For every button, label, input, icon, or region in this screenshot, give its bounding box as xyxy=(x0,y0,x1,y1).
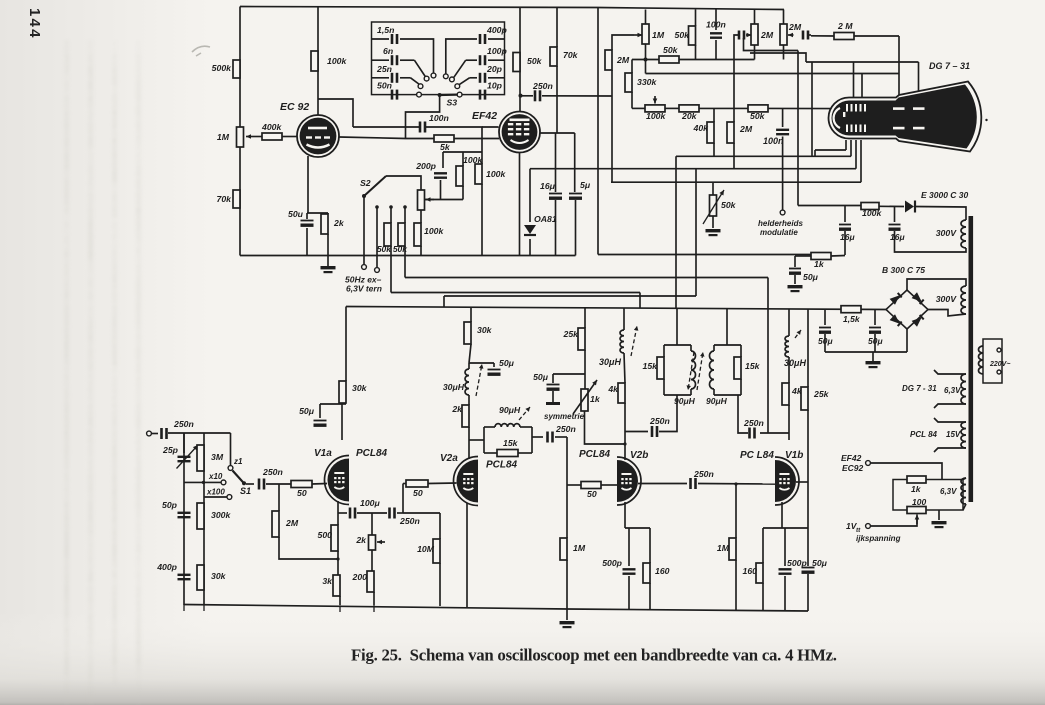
svg-text:400k: 400k xyxy=(261,122,282,132)
resistor 20k xyxy=(679,105,699,112)
svg-text:100k: 100k xyxy=(862,208,882,218)
junction V1b grid node xyxy=(734,482,737,485)
wire anode rail H9 xyxy=(346,307,886,310)
svg-text:5k: 5k xyxy=(440,142,451,152)
wire 250n to grid node xyxy=(397,512,403,514)
wire cathode tap xyxy=(338,512,347,514)
resistor 200 xyxy=(367,571,374,592)
wire box to cap xyxy=(532,436,543,438)
wire S3 diag r3 xyxy=(459,78,470,85)
CRT DG7-31 xyxy=(829,82,988,152)
ground main ground xyxy=(560,621,575,624)
wire 16u b bottom xyxy=(895,231,967,252)
wire anode node xyxy=(342,403,346,405)
resistor 50k row2 xyxy=(748,105,768,112)
resistor 500 xyxy=(331,525,338,551)
wire coil c top xyxy=(788,309,790,336)
wire 100n mid bottom xyxy=(782,137,784,211)
wire V x768 xyxy=(767,278,769,434)
capacitor 5u xyxy=(569,193,582,195)
wire interstage row xyxy=(638,483,687,485)
capacitor 16u a xyxy=(839,224,851,226)
svg-text:30μH: 30μH xyxy=(443,382,465,392)
svg-text:90μH: 90μH xyxy=(499,405,521,415)
svg-text:30k: 30k xyxy=(352,383,368,393)
wire grid wire V2a xyxy=(403,483,406,485)
arrow 1M X wiper xyxy=(634,34,643,36)
svg-text:30μH: 30μH xyxy=(784,358,806,368)
wire 100n top lead xyxy=(715,10,717,31)
wire 50u d lead xyxy=(807,528,809,566)
svg-text:vuemmnnew: vuemmnnew xyxy=(85,656,96,705)
wire V x611 xyxy=(611,181,612,183)
wire cap row right 400p xyxy=(488,38,505,40)
wire cap row left 25n xyxy=(372,77,390,79)
svg-text:50μ: 50μ xyxy=(299,406,315,416)
inductor 30uH a xyxy=(465,369,469,395)
wire S2 t1 xyxy=(363,196,365,264)
resistor 2M grid leak xyxy=(272,511,279,537)
capacitor 20p xyxy=(479,73,482,83)
wire 1M bottom xyxy=(645,44,647,60)
wire top supply rail xyxy=(240,7,784,10)
wire x10 wire xyxy=(184,481,221,483)
wire neck feed 1 xyxy=(845,140,847,150)
wire gnd stub bridge xyxy=(872,352,874,361)
wire V x815 xyxy=(814,150,816,156)
wire 2M mid top xyxy=(733,121,735,123)
svg-text:EF42: EF42 xyxy=(472,110,497,122)
wire 250n tap V2b xyxy=(625,431,648,433)
wire 70k top xyxy=(556,7,558,47)
wire pot row a xyxy=(665,107,679,109)
svg-text:2M: 2M xyxy=(788,22,802,32)
wire 50u a bottom xyxy=(794,275,796,284)
svg-text:50n: 50n xyxy=(377,81,392,91)
wire 160 c bottom xyxy=(762,583,764,611)
svg-text:250n: 250n xyxy=(173,419,194,429)
diode E3000C30 xyxy=(905,201,914,213)
svg-text:2k: 2k xyxy=(355,535,367,545)
wire box2 feed xyxy=(676,309,678,345)
inductor 30uH c xyxy=(785,336,789,357)
wire pot row c xyxy=(768,107,832,109)
svg-text:100μ: 100μ xyxy=(360,498,380,508)
capacitor 16u EF42 xyxy=(549,193,562,195)
inductor 300V b xyxy=(961,286,966,314)
wire 40k bottom xyxy=(713,143,715,156)
wire V x812 xyxy=(811,62,813,156)
svg-text:15k: 15k xyxy=(643,361,659,371)
resistor 30k V2a xyxy=(464,322,471,344)
svg-text:PCL84: PCL84 xyxy=(486,460,518,471)
wire bus H6 xyxy=(405,277,768,279)
potentiometer 50k intensity xyxy=(710,195,717,216)
svg-text:EC92: EC92 xyxy=(842,463,864,473)
svg-text:2M: 2M xyxy=(285,518,299,528)
wire V1b output xyxy=(796,481,808,483)
junction junction 50k row xyxy=(644,58,648,62)
ground 50u ground xyxy=(788,285,803,288)
wire grid to 50 xyxy=(567,484,581,486)
resistor 2M horiz xyxy=(834,33,854,40)
wire 1M bottom xyxy=(566,560,568,609)
resistor 1.5k xyxy=(841,306,861,313)
svg-text:25p: 25p xyxy=(162,445,179,455)
wire bridge bottom row xyxy=(825,351,907,353)
terminal terminal extern xyxy=(375,268,380,273)
wire 330k top xyxy=(631,60,633,74)
wire S1 to cap xyxy=(246,483,254,485)
wire bus H5 1k row xyxy=(598,254,811,256)
wire box bot b xyxy=(518,452,532,454)
wire 250n c right xyxy=(698,483,775,486)
wire 160 b bottom xyxy=(649,583,651,610)
wire cathode split xyxy=(307,212,328,214)
potentiometer 100k focus xyxy=(645,105,665,112)
wire pot1 bottom xyxy=(754,45,756,60)
capacitor 50u PSU xyxy=(789,268,801,270)
capacitor 250n V2b grid xyxy=(546,432,549,443)
terminal S3 contact b xyxy=(424,76,429,81)
ground 50u sym xyxy=(546,402,560,405)
svg-text:500k: 500k xyxy=(212,63,232,73)
wire V x598 xyxy=(597,8,599,255)
wire OA81 bottom xyxy=(529,239,531,256)
svg-text:2k: 2k xyxy=(333,218,345,228)
wire box3 feed xyxy=(726,309,728,345)
svg-text:3M: 3M xyxy=(211,452,224,462)
svg-text:30k: 30k xyxy=(477,325,493,335)
wire box3 top xyxy=(714,344,741,346)
wire 2M leak bottom xyxy=(279,537,338,559)
transformer core xyxy=(969,216,974,502)
svg-text:100p: 100p xyxy=(487,46,507,56)
resistor 4k V1b xyxy=(782,383,789,405)
wire 1M c lead xyxy=(735,484,737,538)
terminal mains terminal b xyxy=(997,370,1001,374)
adjust arrow 30uH b core xyxy=(631,326,637,356)
arrow 2k wiper xyxy=(377,541,385,543)
wire S3 right row3 xyxy=(470,77,478,79)
resistor 1M V2b xyxy=(560,538,567,560)
svg-text:250n: 250n xyxy=(649,416,670,426)
wire neck feed 2 xyxy=(850,140,852,156)
wire 50u sym stub xyxy=(552,391,554,402)
svg-text:1M: 1M xyxy=(573,543,586,553)
wire bus y73 xyxy=(646,73,900,75)
rail stub b xyxy=(203,605,205,612)
svg-text:10p: 10p xyxy=(487,81,503,91)
wire 4k b to coil xyxy=(788,357,790,383)
svg-text:2M: 2M xyxy=(760,30,774,40)
resistor 2M mid xyxy=(727,122,734,143)
arrow cal wiper xyxy=(916,515,918,525)
resistor 15k b xyxy=(657,357,664,379)
resistor 50k b xyxy=(398,223,405,246)
wire 1k pot bottom xyxy=(585,411,626,444)
wire 1M c bottom xyxy=(735,560,737,611)
svg-text:6,3V: 6,3V xyxy=(940,487,957,496)
svg-text:330k: 330k xyxy=(637,77,657,87)
wire neck feed 4 xyxy=(860,140,862,182)
svg-text:20p: 20p xyxy=(486,64,503,74)
wire S3 right row2 xyxy=(466,59,477,61)
wire 50u lead xyxy=(306,213,308,219)
terminal terminal EF42 EC92 xyxy=(866,461,871,466)
capacitor 400p xyxy=(178,574,191,576)
capacitor 100n coupling xyxy=(419,122,422,133)
resistor 50 grid V1a xyxy=(291,481,312,488)
inductor 220V primary xyxy=(979,346,984,374)
wire 100n bottom xyxy=(715,40,717,60)
svg-text:50: 50 xyxy=(413,488,423,498)
svg-text:nnnvnewvw: nnnvnewvw xyxy=(133,656,144,705)
resistor 50 grid V2b xyxy=(581,482,601,489)
wire cap a outer xyxy=(734,35,739,38)
resistor 100k PSU xyxy=(861,203,879,210)
wire neck feed 3 xyxy=(855,140,857,169)
svg-text:2k: 2k xyxy=(451,404,463,414)
wire pcl lead a xyxy=(934,418,966,422)
wire V1b anode up xyxy=(788,405,790,433)
svg-text:z1: z1 xyxy=(233,457,243,466)
arrow 1M wiper xyxy=(246,136,262,138)
wire S2 t2 xyxy=(376,207,378,267)
capacitor 100u xyxy=(349,508,352,519)
capacitor 250n interstage xyxy=(388,508,391,519)
capacitor 250n S1 xyxy=(258,479,261,490)
resistor 400k xyxy=(262,133,282,140)
wire 5u lead xyxy=(574,133,576,192)
wire 30k2 link xyxy=(469,344,471,363)
timing capacitor bank box xyxy=(372,22,505,95)
resistor 25k xyxy=(578,328,585,350)
wire pot2 bottom xyxy=(783,45,785,60)
junction EF42 anode junction xyxy=(519,94,523,98)
wire 4k to coil xyxy=(624,353,625,383)
svg-text:15k: 15k xyxy=(503,438,519,448)
capacitor coupling a xyxy=(738,31,741,40)
wire 16u bottom xyxy=(555,200,557,256)
tube V2b PCL84 xyxy=(617,457,641,505)
wire cross pair 2 xyxy=(750,53,806,62)
wire EC92 cathode xyxy=(307,156,309,213)
capacitor 25n xyxy=(391,73,394,83)
svg-text:6,3V: 6,3V xyxy=(944,386,961,395)
capacitor 100n mid xyxy=(776,129,789,131)
wire EF42 anode xyxy=(519,7,521,112)
svg-text:200: 200 xyxy=(352,572,368,582)
resistor 10M xyxy=(433,539,440,563)
wire V x899 xyxy=(898,36,900,99)
wire 1Vtt wire xyxy=(870,518,917,526)
wire 1k row xyxy=(795,255,811,257)
wire input lead xyxy=(151,433,158,435)
inductor 90uH b xyxy=(691,351,696,389)
wire 50k b down xyxy=(404,246,406,278)
wire EC92 bottom bus xyxy=(240,255,576,257)
wire 100k b lead xyxy=(481,152,483,164)
wire V1b anode xyxy=(788,433,790,440)
wire 50k int bottom xyxy=(712,216,714,228)
tube V1b PCL84 xyxy=(775,457,799,505)
capacitor 50n xyxy=(391,90,394,100)
tube EF42 xyxy=(499,112,540,153)
wire 50k v bottom xyxy=(695,45,697,60)
svg-text:5μ: 5μ xyxy=(580,180,591,190)
wire 2M h left xyxy=(811,35,834,37)
wire bridge bottom xyxy=(906,329,908,352)
terminal z1 contact xyxy=(228,466,233,471)
svg-text:PCL 84: PCL 84 xyxy=(910,430,938,439)
svg-text:2M: 2M xyxy=(616,55,630,65)
wire 50u sym lead xyxy=(552,374,554,383)
wire 10M lead xyxy=(439,513,441,539)
wire 2k to coil xyxy=(468,395,470,405)
wire 50u c bottom xyxy=(874,334,876,352)
resistor 330k xyxy=(625,73,632,92)
wire cap row left 1,5n xyxy=(372,38,390,40)
wire cap row left 6n xyxy=(372,59,390,61)
svg-text:1k: 1k xyxy=(814,259,825,269)
inductor 15V PCL84 xyxy=(961,422,966,448)
svg-text:PCL84: PCL84 xyxy=(356,448,388,459)
wire 2M mid bottom xyxy=(733,143,735,169)
svg-text:ewwer: ewwer xyxy=(109,656,120,685)
wire S3 diag3 xyxy=(411,78,420,85)
wire dg lead a xyxy=(934,370,966,374)
wire 50k row left xyxy=(632,59,659,61)
capacitor 250n out b xyxy=(651,426,654,437)
terminal input terminal xyxy=(147,431,152,436)
svg-text:100: 100 xyxy=(912,497,926,507)
terminal S3 contact g xyxy=(455,84,460,89)
svg-text:DG 7 - 31: DG 7 - 31 xyxy=(902,384,937,393)
capacitor 10p xyxy=(479,90,482,100)
wire x100 wire xyxy=(204,496,228,498)
resistor 1M c xyxy=(729,538,736,560)
svg-text:PC L84: PC L84 xyxy=(740,450,774,461)
svg-text:500p: 500p xyxy=(602,558,622,568)
capacitor 1,5n xyxy=(391,34,394,44)
wire 10M bottom xyxy=(439,563,441,606)
capacitor 250n V1b xyxy=(748,428,751,439)
arrow 25p trim xyxy=(177,445,199,469)
wire grid wire EC92 xyxy=(282,136,297,138)
capacitor 250n c xyxy=(689,478,692,489)
wire 50u a top xyxy=(794,256,796,267)
wire bus H1 xyxy=(676,155,851,157)
svg-text:modulatie: modulatie xyxy=(760,228,798,237)
wire V1a anode xyxy=(341,404,343,440)
capacitor 50u V2a xyxy=(488,369,501,371)
svg-text:50k: 50k xyxy=(393,244,408,254)
wire div chain xyxy=(203,433,205,605)
svg-text:10M: 10M xyxy=(417,544,435,554)
resistor 30k input xyxy=(197,565,204,590)
tube V2a PCL84 xyxy=(454,457,479,506)
svg-text:50u: 50u xyxy=(288,209,304,219)
resistor 2k V2a xyxy=(462,405,469,427)
wire pot row b xyxy=(699,107,748,109)
capacitor 100n D xyxy=(710,32,722,34)
wire 5u bottom xyxy=(575,200,577,256)
wire S3 left row1 xyxy=(400,39,434,73)
resistor 2M left xyxy=(605,50,612,70)
resistor 500k xyxy=(233,60,240,78)
svg-text:50p: 50p xyxy=(162,500,178,510)
capacitor 500p c xyxy=(779,568,792,570)
wire 50u sym tap xyxy=(553,373,585,375)
diode OA81 xyxy=(524,225,536,234)
svg-text:S3: S3 xyxy=(447,98,458,108)
svg-text:200p: 200p xyxy=(415,161,436,171)
wire box2 top xyxy=(664,344,691,346)
adjust arrow 30uH c core xyxy=(795,330,801,338)
svg-text:144: 144 xyxy=(26,8,43,40)
junction S2 c2 xyxy=(389,205,393,209)
svg-text:300V: 300V xyxy=(936,228,957,238)
wire 100k a lead xyxy=(462,152,464,166)
wire 50u tap V2a xyxy=(469,362,494,364)
wire 250n row xyxy=(521,95,534,97)
svg-text:15k: 15k xyxy=(745,361,761,371)
wire 50 to V1a xyxy=(312,483,327,486)
svg-text:100k: 100k xyxy=(327,56,347,66)
svg-text:1M: 1M xyxy=(717,543,730,553)
capacitor 50u c xyxy=(869,327,881,329)
wire 500 to 3k xyxy=(337,551,339,575)
svg-text:500p: 500p xyxy=(787,558,807,568)
tube EC92 xyxy=(297,115,339,157)
resistor 15k a xyxy=(497,450,518,457)
wire EC92 anode xyxy=(317,7,319,115)
capacitor 200p xyxy=(434,172,447,174)
potentiometer 1M xyxy=(237,127,244,147)
wire EF42 cathode xyxy=(519,153,521,256)
svg-text:50k: 50k xyxy=(663,45,679,55)
capacitor 250n trigger xyxy=(534,90,537,101)
terminal S3 contact c xyxy=(418,84,423,89)
calibration network box xyxy=(893,480,963,511)
capacitor 400p xyxy=(479,34,482,44)
wire OA81 branch xyxy=(529,169,531,222)
resistor 100k a xyxy=(456,166,463,186)
terminal terminal 1Vtt xyxy=(866,524,871,529)
wire 16u lead xyxy=(555,133,557,192)
wire bus H3 xyxy=(611,181,861,183)
wire 16u b top xyxy=(894,207,896,223)
arrow 50k int xyxy=(703,190,724,224)
resistor 160 c xyxy=(756,563,763,583)
svg-text:90μH: 90μH xyxy=(674,396,696,406)
resistor 300k xyxy=(197,503,204,529)
wire dg lead b xyxy=(934,404,966,408)
svg-text:EC 92: EC 92 xyxy=(280,101,309,113)
resistor 50k horiz D xyxy=(659,56,679,63)
svg-text:25n: 25n xyxy=(376,64,392,74)
rail stub a xyxy=(183,605,185,612)
wire 50u c top xyxy=(874,309,876,325)
svg-text:25k: 25k xyxy=(563,329,580,339)
wire bridge top xyxy=(907,279,966,290)
svg-text:2M: 2M xyxy=(739,124,753,134)
svg-text:50μ: 50μ xyxy=(803,272,819,282)
wire box3 coil top xyxy=(713,345,715,351)
ground cal ground xyxy=(932,521,947,524)
potentiometer 2M b xyxy=(780,24,787,45)
